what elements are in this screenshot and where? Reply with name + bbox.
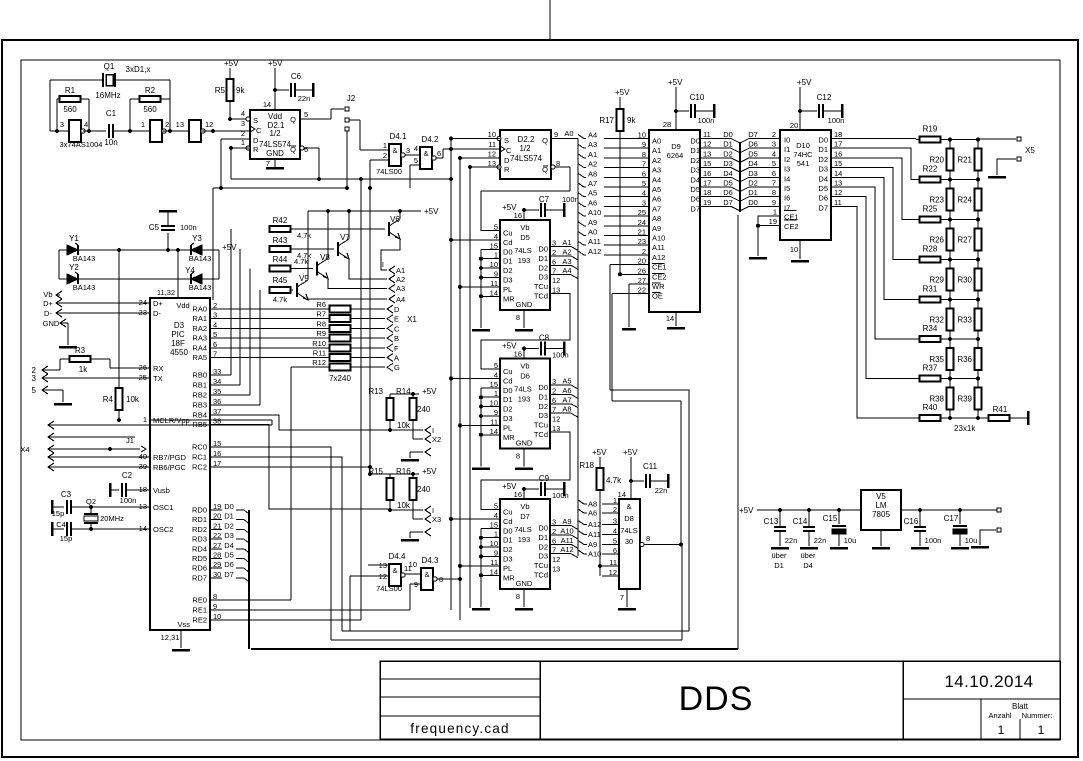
svg-text:R24: R24 (957, 196, 972, 205)
svg-text:&: & (424, 570, 429, 579)
svg-text:A6: A6 (588, 509, 597, 518)
net A6 (550, 393, 571, 395)
capacitor C16 (918, 508, 922, 512)
svg-text:V5: V5 (876, 492, 886, 501)
wire V7 emitter to A2 (349, 259, 387, 279)
svg-text:+5V: +5V (222, 243, 237, 252)
svg-text:A6: A6 (652, 195, 661, 204)
wire Cd D5 (451, 239, 500, 241)
capacitor C13 (778, 508, 782, 512)
wire D8 out riser (644, 545, 682, 641)
svg-text:C: C (256, 126, 262, 135)
svg-text:MR: MR (503, 433, 515, 442)
svg-text:R11: R11 (313, 349, 326, 358)
svg-text:R26: R26 (929, 236, 944, 245)
svg-text:&: & (392, 146, 397, 155)
svg-text:6: 6 (772, 169, 776, 178)
wire trunk y188 (213, 187, 346, 189)
svg-text:D5: D5 (748, 149, 758, 158)
svg-text:F: F (394, 344, 399, 353)
svg-text:D3: D3 (538, 411, 548, 420)
wire D4.4 inputs (368, 564, 389, 566)
svg-text:D7: D7 (520, 512, 530, 521)
net A2 (550, 255, 571, 257)
svg-text:D3: D3 (818, 165, 828, 174)
svg-text:RB2: RB2 (192, 391, 207, 400)
svg-text:D0: D0 (690, 137, 700, 146)
svg-text:+5V: +5V (615, 88, 630, 97)
svg-text:RD3: RD3 (192, 535, 207, 544)
wire Cd D7 (451, 518, 500, 520)
svg-text:A0: A0 (564, 129, 573, 138)
svg-text:12: 12 (552, 276, 560, 285)
wire RC0 (210, 447, 331, 640)
svg-text:100n: 100n (552, 491, 569, 500)
resistor R12 (330, 364, 351, 371)
net A9 to RAM (578, 222, 584, 226)
svg-text:1k: 1k (79, 365, 88, 374)
resistor R26 (947, 229, 954, 251)
svg-text:R35: R35 (929, 355, 944, 364)
svg-text:TCd: TCd (534, 292, 548, 301)
wire R14 bottom (412, 419, 414, 439)
svg-text:4: 4 (642, 189, 646, 198)
wire PL D6 (460, 424, 500, 426)
wire data tie D6 (480, 388, 482, 467)
svg-text:RA0: RA0 (192, 305, 207, 314)
power Vdd feed D3 (177, 250, 179, 298)
svg-text:I7: I7 (784, 203, 790, 212)
svg-text:A8: A8 (588, 169, 597, 178)
svg-text:3: 3 (32, 374, 37, 383)
svg-text:D1: D1 (723, 140, 733, 149)
svg-text:D4: D4 (224, 541, 234, 550)
capacitor C1 (83, 130, 106, 132)
svg-text:4.7k: 4.7k (606, 476, 622, 485)
svg-text:D5: D5 (224, 551, 234, 560)
wire CE1 (610, 264, 649, 266)
svg-text:D10: D10 (796, 141, 810, 150)
svg-text:D3: D3 (224, 531, 234, 540)
wire V8 collector (327, 211, 329, 259)
svg-text:193: 193 (518, 535, 531, 544)
ground usb (67, 323, 69, 345)
svg-text:C1: C1 (106, 109, 117, 118)
svg-text:I: I (432, 506, 434, 515)
svg-text:19: 19 (703, 198, 711, 207)
svg-text:D0: D0 (503, 247, 513, 256)
net A4 (550, 274, 571, 276)
svg-text:R36: R36 (957, 355, 972, 364)
title sheet cells (980, 699, 982, 739)
svg-text:R40: R40 (923, 403, 938, 412)
svg-text:C4: C4 (56, 520, 66, 529)
resistor R34 (920, 336, 941, 342)
svg-text:8: 8 (516, 452, 520, 461)
svg-text:D8: D8 (624, 514, 634, 523)
svg-text:D-: D- (44, 309, 52, 318)
svg-text:4: 4 (84, 120, 88, 129)
svg-text:16: 16 (514, 490, 522, 499)
svg-text:+5V: +5V (422, 387, 437, 396)
svg-text:D6: D6 (748, 140, 758, 149)
svg-text:74LS574: 74LS574 (259, 140, 292, 149)
svg-text:13: 13 (552, 565, 560, 574)
net A5 to RAM (578, 193, 584, 197)
svg-text:PIC: PIC (171, 330, 185, 339)
svg-text:I: I (382, 260, 384, 269)
svg-text:D4.4: D4.4 (389, 552, 406, 561)
svg-text:15: 15 (703, 159, 711, 168)
wire PL D5 (460, 286, 500, 288)
net A3 (550, 264, 571, 266)
svg-text:560: 560 (63, 105, 77, 114)
svg-text:R6: R6 (316, 300, 326, 309)
resistor R1 (60, 96, 81, 102)
wire R16 bottom (412, 499, 414, 519)
net A9 (550, 525, 571, 527)
svg-text:10: 10 (638, 131, 646, 140)
svg-text:D6: D6 (224, 560, 234, 569)
svg-text:25: 25 (638, 208, 646, 217)
resistor R7 (330, 315, 351, 322)
wire J2 mid to D4.1 (349, 119, 360, 121)
svg-text:D4.2: D4.2 (422, 135, 439, 144)
wire D10 out 2 to ladder (831, 158, 920, 220)
svg-text:14.10.2014: 14.10.2014 (944, 672, 1033, 691)
net A7 to RAM (578, 183, 584, 187)
svg-text:16: 16 (514, 350, 522, 359)
svg-text:RC1: RC1 (192, 453, 207, 462)
svg-text:A2: A2 (652, 156, 661, 165)
wire +5V X3 extension (370, 473, 390, 475)
resistor R18 (597, 468, 604, 490)
svg-text:A10: A10 (588, 550, 601, 559)
capacitor C2 (109, 483, 112, 497)
svg-text:5: 5 (772, 159, 776, 168)
svg-text:3x74AS1004: 3x74AS1004 (60, 140, 103, 149)
svg-text:74LS00: 74LS00 (376, 167, 402, 176)
svg-text:Anzahl: Anzahl (989, 711, 1012, 720)
svg-text:12: 12 (834, 188, 842, 197)
svg-text:6: 6 (437, 149, 441, 158)
svg-text:R44: R44 (273, 255, 288, 264)
svg-text:12: 12 (488, 150, 496, 159)
svg-text:R8: R8 (316, 319, 326, 328)
svg-text:1/2: 1/2 (269, 129, 281, 138)
wire RB7 RB6 arrows (48, 453, 54, 461)
svg-text:Q: Q (542, 136, 548, 145)
svg-text:10: 10 (488, 130, 496, 139)
net A10 (550, 534, 571, 536)
svg-text:PL: PL (503, 423, 512, 432)
svg-text:Blatt: Blatt (1012, 702, 1029, 711)
svg-text:MR: MR (503, 294, 515, 303)
svg-text:100n: 100n (925, 536, 942, 545)
resistor R23 (947, 189, 954, 211)
svg-text:C9: C9 (539, 474, 550, 483)
svg-text:D2: D2 (503, 405, 513, 414)
svg-text:A6: A6 (562, 386, 571, 395)
svg-text:10k: 10k (126, 395, 140, 404)
wire RB4 to X2 (210, 415, 390, 430)
svg-text:Y4: Y4 (185, 266, 195, 275)
resistor R40 (920, 415, 941, 421)
wire D10 out 1 to ladder (831, 148, 920, 179)
svg-text:frequency.cad: frequency.cad (410, 721, 509, 736)
svg-text:100n: 100n (698, 116, 715, 125)
resistor R14 (410, 398, 417, 420)
svg-text:D2: D2 (723, 149, 733, 158)
power +5V diodes (218, 250, 220, 279)
svg-text:D3: D3 (503, 555, 513, 564)
wire V9 collector (307, 211, 309, 280)
svg-text:D2: D2 (818, 155, 828, 164)
svg-text:A11: A11 (561, 536, 574, 545)
svg-text:Vdd: Vdd (176, 301, 189, 310)
svg-text:A11: A11 (588, 530, 601, 539)
svg-text:D9: D9 (671, 142, 681, 151)
capacitor C8 (524, 348, 539, 350)
wire D10 out 3 to ladder (831, 168, 920, 260)
svg-text:RD1: RD1 (192, 515, 207, 524)
bus data trunk x740 (739, 142, 741, 212)
counter D6 74LS193 (500, 359, 550, 449)
wire riser x738 (737, 215, 739, 649)
svg-text:GND: GND (43, 319, 60, 328)
svg-text:D: D (253, 136, 259, 145)
svg-text:+5V: +5V (224, 59, 239, 68)
svg-text:Cu: Cu (503, 367, 513, 376)
svg-text:RE1: RE1 (192, 606, 207, 615)
svg-text:Vusb: Vusb (153, 486, 170, 495)
svg-text:9k: 9k (236, 86, 245, 95)
resistor R2 (140, 96, 161, 102)
svg-text:R22: R22 (923, 165, 938, 174)
svg-text:TCd: TCd (534, 571, 548, 580)
svg-text:A0: A0 (652, 137, 661, 146)
svg-text:4.7k: 4.7k (297, 231, 311, 240)
svg-text:D5: D5 (818, 184, 828, 193)
wire D10 out 5 to ladder (831, 187, 920, 339)
svg-text:RE0: RE0 (192, 596, 207, 605)
svg-text:D3: D3 (503, 276, 513, 285)
resistor R16 (410, 478, 417, 500)
capacitor C4 (51, 522, 54, 536)
capacitor C17 electrolytic (958, 508, 962, 512)
net A5 (550, 384, 571, 386)
svg-text:A10: A10 (560, 526, 573, 535)
svg-text:100n: 100n (828, 116, 845, 125)
net A (387, 354, 393, 362)
svg-text:GND: GND (516, 439, 533, 448)
svg-text:2: 2 (772, 130, 776, 139)
resistor R15 (387, 478, 394, 500)
svg-text:C12: C12 (817, 93, 832, 102)
svg-text:R19: R19 (923, 125, 938, 134)
svg-text:193: 193 (518, 256, 531, 265)
svg-text:240: 240 (417, 485, 431, 494)
svg-text:Cd: Cd (503, 517, 513, 526)
svg-text:15: 15 (834, 159, 842, 168)
bus address trunk (577, 139, 579, 557)
svg-text:G: G (394, 363, 400, 372)
svg-text:R: R (504, 165, 510, 174)
svg-text:R21: R21 (957, 156, 972, 165)
svg-text:D-: D- (153, 309, 161, 318)
wire R15 bottom (389, 499, 391, 510)
bus trunk PIC data (248, 510, 250, 649)
resistor R45 (270, 287, 291, 293)
svg-text:D2: D2 (538, 542, 548, 551)
net A10 to RAM (578, 212, 584, 216)
svg-text:R17: R17 (599, 116, 614, 125)
svg-text:R18: R18 (579, 461, 594, 470)
svg-text:D4: D4 (818, 174, 828, 183)
svg-text:R14: R14 (396, 387, 411, 396)
capacitor C11 (631, 480, 644, 482)
title date box (903, 661, 1060, 739)
wire osc feedback left (49, 80, 51, 131)
resistor R37 (920, 376, 941, 382)
svg-text:R43: R43 (273, 236, 288, 245)
resistor R38 (947, 387, 954, 409)
svg-text:R12: R12 (312, 358, 326, 367)
buffer D10 74HC541 (780, 130, 831, 240)
svg-text:A5: A5 (562, 377, 571, 386)
wire RD bus (210, 509, 222, 511)
svg-text:3: 3 (241, 119, 245, 128)
svg-text:7805: 7805 (872, 510, 890, 519)
svg-text:R16: R16 (396, 467, 411, 476)
resistor R42 (270, 226, 291, 232)
svg-text:Cd: Cd (503, 238, 513, 247)
svg-text:A3: A3 (588, 140, 597, 149)
svg-text:4550: 4550 (170, 348, 188, 357)
svg-text:RB0: RB0 (192, 371, 207, 380)
svg-text:A9: A9 (652, 224, 661, 233)
net A1 to RAM (578, 154, 584, 158)
svg-text:7: 7 (266, 159, 270, 168)
svg-text:R41: R41 (993, 405, 1008, 414)
svg-text:R28: R28 (923, 245, 938, 254)
net A11 (550, 543, 571, 545)
svg-text:R37: R37 (923, 364, 938, 373)
svg-text:X4: X4 (20, 445, 29, 454)
net A12 to RAM (578, 251, 584, 255)
svg-text:13: 13 (834, 179, 842, 188)
svg-text:D3: D3 (174, 321, 185, 330)
svg-text:D+: D+ (153, 299, 163, 308)
svg-text:R38: R38 (929, 394, 944, 403)
ground X2 (425, 448, 431, 456)
svg-text:TCu: TCu (534, 561, 548, 570)
wire MCLR (118, 250, 120, 389)
svg-text:13: 13 (703, 149, 711, 158)
wire R pin1 down (231, 147, 250, 149)
svg-text:D1: D1 (503, 395, 513, 404)
svg-text:D: D (504, 156, 510, 165)
flip-flop D2.2 74LS574 (500, 130, 551, 179)
wire carry D5 to D6 (481, 294, 570, 370)
svg-text:8: 8 (516, 313, 520, 322)
resistor R22 (920, 177, 941, 183)
wire R17 to CE2 (619, 130, 621, 274)
svg-text:D7: D7 (748, 130, 758, 139)
svg-text:A2: A2 (588, 160, 597, 169)
svg-text:R: R (253, 145, 259, 154)
svg-text:A8: A8 (562, 405, 571, 414)
svg-text:R39: R39 (957, 394, 972, 403)
svg-text:3: 3 (60, 120, 64, 129)
svg-text:R3: R3 (75, 346, 86, 355)
svg-text:100n: 100n (180, 223, 197, 232)
capacitor C12 (800, 110, 817, 112)
svg-text:A12: A12 (588, 247, 601, 256)
svg-text:5: 5 (414, 156, 418, 165)
svg-text:I2: I2 (784, 155, 790, 164)
svg-text:18: 18 (834, 130, 842, 139)
svg-text:Cu: Cu (503, 508, 513, 517)
svg-text:C10: C10 (690, 93, 705, 102)
wire D4.2 in5 (410, 164, 420, 166)
wire vertical trunk x460 (459, 158, 461, 620)
net A8 (550, 412, 571, 414)
wire D10 out 7 to ladder (831, 206, 920, 418)
svg-text:3: 3 (642, 198, 646, 207)
svg-text:+5V: +5V (797, 78, 812, 87)
svg-text:74LS: 74LS (514, 525, 532, 534)
svg-text:RX: RX (153, 364, 163, 373)
svg-text:R30: R30 (957, 276, 972, 285)
svg-text:RB4: RB4 (192, 411, 207, 420)
capacitor C15 electrolytic (837, 508, 841, 512)
svg-text:D1: D1 (774, 561, 784, 570)
wire trunk y649 (251, 648, 738, 650)
svg-text:R42: R42 (273, 216, 288, 225)
svg-text:GND: GND (266, 149, 284, 158)
svg-text:A4: A4 (562, 266, 571, 275)
svg-text:RD5: RD5 (192, 554, 207, 563)
svg-text:A3: A3 (652, 166, 661, 175)
svg-text:I4: I4 (784, 174, 790, 183)
net G (387, 363, 393, 371)
svg-text:BA143: BA143 (73, 283, 96, 292)
net E (387, 315, 393, 323)
capacitor C9 (524, 488, 539, 490)
svg-text:D2: D2 (538, 402, 548, 411)
svg-text:A2: A2 (396, 275, 405, 284)
svg-text:A4: A4 (588, 131, 597, 140)
svg-text:30: 30 (625, 537, 633, 546)
wire vertical trunk x361 (360, 179, 362, 620)
crystal Q1 (50, 79, 102, 81)
svg-text:C7: C7 (539, 195, 550, 204)
svg-text:C3: C3 (61, 490, 72, 499)
svg-text:74LS00: 74LS00 (376, 584, 402, 593)
svg-text:C15: C15 (823, 514, 838, 523)
svg-text:7: 7 (642, 160, 646, 169)
svg-text:A9: A9 (588, 540, 597, 549)
svg-text:6: 6 (304, 145, 308, 154)
resistor R8 (330, 325, 351, 332)
svg-text:OSC2: OSC2 (153, 525, 173, 534)
resistor R28 (920, 257, 941, 263)
svg-text:RB7/PGD: RB7/PGD (153, 453, 187, 462)
svg-text:R31: R31 (923, 285, 938, 294)
resistor R13 (387, 398, 394, 420)
resistor R20 (947, 149, 954, 171)
